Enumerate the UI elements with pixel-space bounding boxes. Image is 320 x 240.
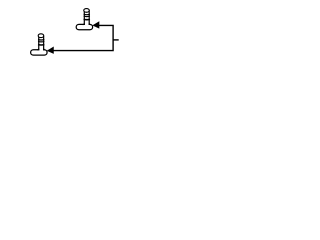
screw 2 shank sides — [39, 36, 44, 51]
thread band lower — [84, 18, 90, 21]
wire leader line from top screw right-angle path to left screw — [48, 25, 114, 50]
wire stub tick on vertical segment — [113, 39, 119, 41]
screw 1 shank mask — [85, 20, 89, 25]
screw 2 thread bands — [38, 40, 44, 42]
screw 2 tip — [38, 34, 44, 38]
screw 2 head fillets — [37, 49, 45, 50]
screw 2 shank mask — [39, 45, 43, 50]
screw 1 shank sides — [84, 10, 89, 25]
arrow pointing at screw 1 — [92, 21, 99, 28]
screw 1 (top screw) — [76, 9, 92, 30]
screw 1 thread bands — [84, 14, 90, 16]
screw 2 (left screw) — [31, 34, 47, 55]
arrow pointing at screw 2 — [47, 47, 54, 54]
thread band lower — [38, 44, 44, 47]
screw 1 tip — [84, 9, 90, 13]
screw 2 head — [31, 50, 47, 55]
screw 1 head fillets — [83, 23, 91, 24]
screw 1 head — [76, 24, 92, 29]
